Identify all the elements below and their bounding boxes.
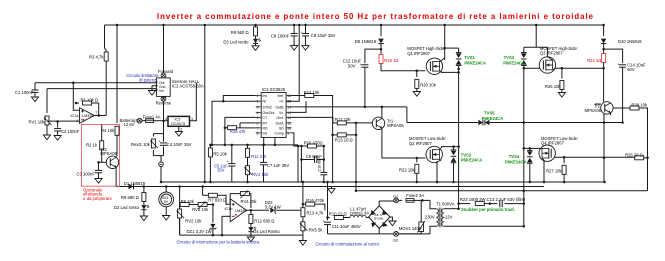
svg-text:IC1a: IC1a [71,114,80,118]
svg-text:RV2 10k: RV2 10k [185,218,202,223]
capacitor C2 [57,122,59,128]
svg-text:R22 10k: R22 10k [399,168,416,173]
wire reverse to battery node [163,101,165,121]
svg-text:C2 100nF: C2 100nF [61,129,80,134]
diode D10 [601,39,607,44]
svg-text:BY500: BY500 [374,217,383,221]
svg-text:R16 47k: R16 47k [230,129,247,134]
svg-text:R3 4,7k: R3 4,7k [89,55,104,60]
svg-text:7: 7 [257,127,259,131]
svg-text:D5 1N5819: D5 1N5819 [355,39,377,44]
led D4 [248,227,256,232]
svg-text:P6KE24CA: P6KE24CA [461,158,483,163]
svg-text:R20 10k: R20 10k [420,82,437,87]
zener DZ1 [212,205,214,223]
svg-text:3,3V 1W: 3,3V 1W [265,204,281,209]
svg-text:SD: SD [279,127,284,131]
resistor R20 [416,71,418,77]
svg-text:R15 470Ω: R15 470Ω [304,140,323,145]
potentiometer RV3 [198,202,207,210]
potentiometer RV2 [179,205,181,210]
svg-text:R27 10k: R27 10k [546,168,563,173]
wire RV1 branch [46,89,48,113]
wire bootstrap branch B [603,25,605,36]
svg-text:9: 9 [287,132,289,136]
wire pin9 comp loop [292,133,302,146]
svg-text:13: 13 [287,111,291,115]
wire output node [94,115,106,117]
wire Tr2 emitter [603,114,605,179]
resistor R24 red [602,54,606,63]
resistor R13b [301,208,305,217]
potentiometer RV5 [300,222,308,231]
svg-text:R25 10k: R25 10k [545,84,562,89]
wire bottom AC line [328,233,431,235]
svg-text:C1 100nF: C1 100nF [15,90,34,95]
zener DZ2 [270,207,276,214]
svg-text:Fuse2 3A: Fuse2 3A [406,193,424,198]
svg-text:50V: 50V [348,63,356,68]
svg-text:MPSA06: MPSA06 [100,151,117,156]
svg-text:R9 560 Ω: R9 560 Ω [231,30,249,35]
svg-text:MPSA06: MPSA06 [387,123,404,128]
resistor R9 [255,25,257,27]
ground IC3 [178,126,180,131]
resistor R2 [101,125,103,142]
svg-text:C3 100nF: C3 100nF [77,172,96,177]
resistor R6 [179,204,181,206]
tvs TVS4 [529,148,531,150]
resistor R25 [561,68,563,78]
wire supply branch with R3 [104,25,106,48]
svg-text:12,6V: 12,6V [124,122,135,127]
wire to rail [298,146,301,182]
svg-text:T1 500VA: T1 500VA [436,202,455,207]
capacitor C11 [327,218,329,221]
svg-text:R1 10k Ω: R1 10k Ω [81,97,99,102]
inductor L1 [344,217,350,219]
resistor R14 [292,95,305,97]
led D2 rosso [141,205,149,210]
bridge rectifier [369,206,390,229]
svg-text:D2 Led rosso: D2 Led rosso [114,205,140,210]
svg-text:Fuse1 4A: Fuse1 4A [143,114,161,119]
svg-text:C4 10nF 35V: C4 10nF 35V [167,142,192,147]
dc/dc converter IC3 [168,116,190,126]
svg-text:4: 4 [76,119,78,123]
led D3 verde [253,39,261,44]
svg-text:Snubber per primario trasf.: Snubber per primario trasf. [461,207,515,212]
svg-text:SS: SS [263,132,268,136]
bottom rail B [116,186,544,188]
fuse F1 [146,119,154,123]
svg-text:16: 16 [287,94,291,98]
resistor R5 [209,145,211,148]
svg-text:1: 1 [257,94,259,98]
svg-text:e da jumperare: e da jumperare [83,196,113,201]
svg-text:OutB: OutB [276,105,285,109]
capacitor C9 electrolytic [305,25,307,34]
svg-text:C11 10uF 450V: C11 10uF 450V [332,224,361,229]
svg-text:C10 68n: C10 68n [317,158,321,172]
svg-text:35V: 35V [217,168,225,173]
pwm controller IC4 [261,93,286,138]
resistor R16 blue [237,127,256,129]
svg-text:R7 820 Ω: R7 820 Ω [208,198,226,203]
svg-text:MOV2 140V: MOV2 140V [399,226,422,231]
svg-text:R10 22 Ω: R10 22 Ω [329,212,347,217]
svg-text:LM339: LM339 [235,209,247,213]
resistor R26 [635,156,644,160]
diode D1 [129,184,134,190]
opamp IC1b [230,199,246,222]
resistor R16b [303,203,306,205]
svg-text:R4 10k: R4 10k [101,128,115,133]
svg-text:Comp: Comp [275,132,284,136]
svg-text:D1 1N5819: D1 1N5819 [124,181,146,186]
capacitor C3 [98,162,100,170]
wire battery minus branch [163,121,165,134]
svg-text:IC4 SG3525: IC4 SG3525 [262,87,286,92]
svg-text:50V: 50V [627,67,635,72]
wire pin6 RT [240,122,256,124]
wire + input sense [73,83,79,111]
resistor R1 [83,101,92,105]
resistor R13 [333,131,338,135]
svg-text:R11 47k: R11 47k [251,154,267,159]
capacitor C1 [34,83,36,90]
wire hall Out line [35,82,156,84]
wire TVS5 gate link line [407,122,478,124]
wire output bus B [523,68,525,226]
tvs TVS2 [453,147,455,150]
svg-text:R24 1Ω: R24 1Ω [587,58,601,63]
svg-text:RV4 10k: RV4 10k [252,172,269,177]
wire bootstrap branch A [380,25,382,36]
wire hall Gnd line [47,88,156,90]
svg-text:C7 1uF 35V: C7 1uF 35V [267,163,290,168]
resistor R17 [333,122,337,124]
potentiometer Rext1 [150,139,158,148]
capacitor C7 [263,145,265,162]
wire wiper node [47,120,80,122]
ground hall [152,85,156,87]
svg-text:2: 2 [180,128,182,132]
wire output bus A [458,72,460,208]
svg-text:D10 1N5819: D10 1N5819 [618,39,642,44]
capacitor C8 [293,25,295,34]
wire pin1 pin2 left loop [212,96,256,145]
pin stubs left [256,96,262,133]
transistor Tr2 [601,102,613,114]
hall sensor IC2 box [156,78,170,97]
svg-text:10: 10 [287,127,291,131]
svg-text:R23 1600 2W C13 2,2uF 63V (fil: R23 1600 2W C13 2,2uF 63V (film) [460,197,526,202]
svg-text:Q4 IRF2807: Q4 IRF2807 [541,141,564,146]
resistor R27 [563,157,565,163]
varistor MOV2 [420,200,422,234]
svg-text:4: 4 [257,111,259,115]
top supply rail [105,24,604,26]
svg-text:Vref: Vref [277,94,283,98]
resistor R12 [250,210,252,214]
svg-text:Q3 IRF2807: Q3 IRF2807 [540,51,563,56]
svg-text:P6KE24CA: P6KE24CA [505,159,527,164]
potentiometer RV4b feedback [230,194,240,205]
wire gate column to rail [355,135,357,191]
svg-text:R17 10k: R17 10k [335,117,352,122]
svg-text:SYNC: SYNC [263,105,273,109]
svg-text:D3 Led verde: D3 Led verde [223,39,249,44]
pin stubs right [286,96,291,133]
svg-text:6: 6 [257,122,259,126]
capacitor C4 [163,134,165,156]
wire collector link down [406,107,408,123]
optional jumper box [82,125,120,187]
wire pin12 line [292,117,333,123]
wire drain branch B [535,25,537,47]
svg-text:R13 10 Ω: R13 10 Ω [335,138,353,143]
capacitor C14 [604,49,623,63]
wire main bus x=204.8 [204,25,206,182]
transistor Tr1 [372,117,384,129]
svg-text:11: 11 [287,122,291,126]
svg-text:Vin: Vin [159,89,164,93]
svg-text:R26 10 Ω: R26 10 Ω [625,152,643,157]
snubber R23 C13 [459,203,471,205]
svg-text:C9 10uF 35V: C9 10uF 35V [311,33,336,38]
wire pin5 CT [225,117,256,144]
svg-text:5: 5 [257,116,259,120]
ground bridge right [390,217,393,221]
thermistor probe [160,156,162,162]
svg-text:LM339: LM339 [82,114,94,118]
resistor R28 [613,107,630,109]
svg-text:8: 8 [257,132,259,136]
svg-text:D4 Led Rosso: D4 Led Rosso [253,229,280,234]
capacitor C5 electrolytic blue [231,145,233,164]
resistor R10 [334,216,343,220]
svg-text:Inverter a commutazione e pont: Inverter a commutazione e ponte intero 5… [157,12,594,21]
svg-text:7: 7 [95,111,97,115]
capacitor C10 vertical leg [323,160,325,173]
resistor R22 [416,158,418,162]
svg-text:R14 10k: R14 10k [304,90,321,95]
svg-text:3V: 3V [164,200,169,204]
output node [246,209,269,211]
resistor R4 [115,126,119,135]
svg-text:IC1b: IC1b [225,207,233,211]
svg-text:Gnd: Gnd [277,116,284,120]
resistor R3 4,7k [105,48,107,52]
svg-text:ponte1 4A: ponte1 4A [350,211,369,216]
resistor R11 blue [247,145,249,148]
svg-text:230V: 230V [425,214,435,219]
svg-text:Q2 IRF2807: Q2 IRF2807 [409,141,432,146]
potentiometer RV1 [44,116,52,125]
svg-text:Circuito di commutazione al ca: Circuito di commutazione al carico [316,242,380,247]
svg-text:R19 1Ω: R19 1Ω [384,58,398,63]
ground stub under rail B [331,187,333,189]
potentiometer RV4 blue [245,166,253,175]
resistor R8 [143,187,145,193]
fuse Fuse2 [406,199,414,203]
capacitor C12 [365,49,381,63]
svg-text:Rext1 10k: Rext1 10k [131,142,151,147]
wire pin13 Vc [292,101,307,112]
svg-text:P6KE24CA: P6KE24CA [482,116,504,121]
svg-text:P6KE24CA: P6KE24CA [464,60,486,65]
svg-text:4: 4 [165,117,167,121]
wire IC4 bottom legs [264,138,275,145]
bottom rail A [162,181,605,183]
svg-text:R6 10k: R6 10k [181,199,195,204]
box frame wires [179,187,181,236]
svg-text:MPSA06: MPSA06 [584,108,601,113]
wire OutB line [292,106,407,108]
resistor R15 box [301,145,323,147]
wire rail to R4 [116,25,118,123]
tvs TVS1 [458,48,460,52]
svg-text:12V: 12V [445,214,453,219]
wire DC link left [327,182,329,218]
svg-text:R2 1k: R2 1k [86,142,98,147]
svg-text:+V: +V [279,100,284,104]
svg-text:G2: G2 [393,238,398,242]
svg-text:Forward: Forward [158,69,174,74]
svg-text:RV3 10k: RV3 10k [192,207,209,212]
wire secondary to buses [444,208,459,210]
svg-text:IC2 ACS758-50A: IC2 ACS758-50A [172,83,204,88]
resistor R19 red [379,55,383,64]
tvs TVS3 [523,47,525,52]
svg-text:OutA: OutA [276,122,285,126]
svg-text:C8 100nF: C8 100nF [271,34,290,39]
bottom analog rail [210,144,298,146]
svg-text:P6KE24CA: P6KE24CA [503,60,525,65]
svg-text:RD: RD [263,127,269,131]
svg-text:Inv: Inv [263,94,268,98]
svg-text:R28 10k: R28 10k [631,102,648,107]
resistor R7 [203,194,209,196]
svg-text:R13 4,7k: R13 4,7k [307,210,325,215]
wire +V feed down [286,25,299,101]
svg-text:DC/DC5: DC/DC5 [171,122,185,126]
wire forward feed [163,25,165,73]
link rail to transformer [356,190,648,192]
svg-text:OscOut: OscOut [263,111,275,115]
svg-text:12: 12 [287,116,291,120]
svg-text:RV4 20k: RV4 20k [241,199,258,204]
svg-text:Q1 IRF2807: Q1 IRF2807 [407,51,430,56]
svg-text:NI: NI [263,100,267,104]
wire bridge top to rail [379,200,397,202]
capacitor C9b box [301,146,323,160]
svg-text:R5 10k: R5 10k [213,152,227,157]
svg-text:R8 680 Ω: R8 680 Ω [121,195,139,200]
buzzer BZ1 [165,187,167,193]
svg-text:DZ1 3,3V 1W: DZ1 3,3V 1W [187,229,212,234]
terminal G2 [394,232,399,237]
svg-text:Circuito di interruzione per l: Circuito di interruzione per la batteria… [177,240,261,245]
wire feedback [76,102,79,104]
thermal probe sub-box [153,134,163,156]
op-amp IC1a [80,108,95,124]
diode D5 [378,39,384,44]
svg-text:RV5 5k: RV5 5k [309,228,324,233]
svg-text:Vc: Vc [279,111,283,115]
svg-text:R12 680 Ω: R12 680 Ω [254,219,274,224]
svg-text:RV1 10k: RV1 10k [29,120,46,125]
svg-text:R16 470k: R16 470k [306,198,325,203]
transistor Tr3 [106,156,118,168]
